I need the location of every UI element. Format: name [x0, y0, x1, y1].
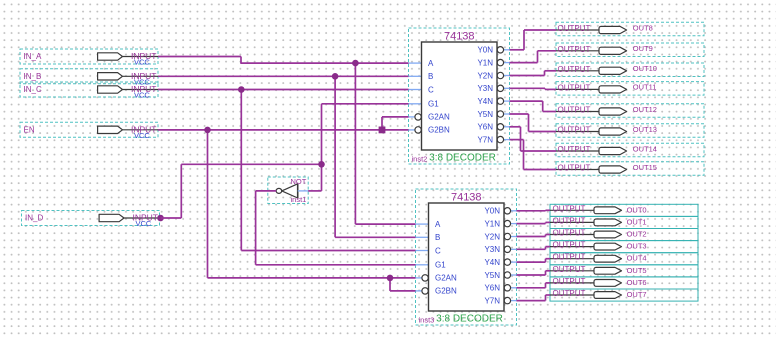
svg-text:OUT6: OUT6 [627, 278, 647, 287]
svg-text:inst1: inst1 [291, 195, 307, 204]
svg-text:G1: G1 [428, 100, 439, 109]
svg-text:OUT0: OUT0 [627, 205, 647, 214]
svg-text:OUT1: OUT1 [627, 217, 647, 226]
svg-text:OUTPUT: OUTPUT [553, 253, 586, 262]
svg-text:G2BN: G2BN [428, 126, 450, 135]
svg-text:G2BN: G2BN [435, 287, 457, 296]
svg-text:G2AN: G2AN [428, 113, 450, 122]
svg-text:OUTPUT: OUTPUT [553, 241, 586, 250]
svg-text:inst3: inst3 [419, 316, 435, 325]
svg-text:A: A [428, 59, 434, 68]
svg-text:Y7N: Y7N [484, 296, 500, 305]
svg-text:inst2: inst2 [412, 155, 428, 164]
svg-text:G1: G1 [435, 261, 446, 270]
svg-text:OUT9: OUT9 [633, 44, 653, 53]
svg-text:OUT4: OUT4 [627, 254, 647, 263]
svg-text:OUT10: OUT10 [633, 64, 657, 73]
svg-text:OUT11: OUT11 [633, 83, 657, 92]
svg-text:Y7N: Y7N [477, 135, 493, 144]
svg-text:Y6N: Y6N [484, 284, 500, 293]
svg-text:OUTPUT: OUTPUT [558, 24, 591, 33]
svg-text:OUT3: OUT3 [627, 242, 647, 251]
svg-text:Y0N: Y0N [477, 46, 493, 55]
svg-text:VCC: VCC [134, 91, 150, 100]
svg-text:Y5N: Y5N [477, 110, 493, 119]
svg-text:Y1N: Y1N [477, 58, 493, 67]
svg-text:OUTPUT: OUTPUT [553, 229, 586, 238]
svg-text:NOT: NOT [291, 177, 307, 186]
svg-text:OUT5: OUT5 [627, 266, 647, 275]
svg-text:OUT15: OUT15 [633, 163, 657, 172]
svg-text:74138: 74138 [444, 31, 475, 43]
svg-text:OUT13: OUT13 [633, 125, 657, 134]
svg-text:OUTPUT: OUTPUT [553, 265, 586, 274]
svg-text:OUTPUT: OUTPUT [558, 145, 591, 154]
svg-text:VCC: VCC [134, 131, 150, 140]
svg-text:Y1N: Y1N [484, 219, 500, 228]
svg-text:3:8 DECODER: 3:8 DECODER [429, 153, 496, 164]
svg-text:Y2N: Y2N [484, 232, 500, 241]
svg-text:B: B [435, 233, 440, 242]
svg-text:G2AN: G2AN [435, 274, 457, 283]
svg-text:IN_D: IN_D [25, 214, 43, 223]
svg-text:IN_C: IN_C [24, 85, 42, 94]
svg-text:OUTPUT: OUTPUT [558, 126, 591, 135]
svg-text:Y4N: Y4N [484, 258, 500, 267]
svg-text:OUTPUT: OUTPUT [553, 204, 586, 213]
svg-text:B: B [428, 72, 433, 81]
svg-text:IN_A: IN_A [24, 52, 42, 61]
svg-text:OUTPUT: OUTPUT [553, 289, 586, 298]
svg-text:3:8 DECODER: 3:8 DECODER [436, 314, 503, 325]
svg-text:C: C [428, 85, 434, 94]
svg-text:OUTPUT: OUTPUT [553, 216, 586, 225]
svg-text:OUT14: OUT14 [633, 144, 657, 153]
svg-text:VCC: VCC [136, 219, 152, 228]
svg-text:OUTPUT: OUTPUT [558, 83, 591, 92]
svg-text:Y0N: Y0N [484, 207, 500, 216]
svg-text:Y2N: Y2N [477, 71, 493, 80]
svg-text:Y6N: Y6N [477, 123, 493, 132]
svg-text:VCC: VCC [134, 58, 150, 67]
svg-text:EN: EN [24, 125, 35, 134]
svg-text:Y5N: Y5N [484, 271, 500, 280]
svg-text:A: A [435, 220, 441, 229]
svg-text:OUTPUT: OUTPUT [558, 164, 591, 173]
svg-text:Y4N: Y4N [477, 97, 493, 106]
svg-text:IN_B: IN_B [24, 72, 42, 81]
svg-text:74138: 74138 [451, 192, 482, 204]
svg-text:OUTPUT: OUTPUT [558, 65, 591, 74]
svg-text:C: C [435, 246, 441, 255]
svg-text:OUTPUT: OUTPUT [558, 106, 591, 115]
svg-text:OUT8: OUT8 [633, 23, 653, 32]
svg-text:OUT12: OUT12 [633, 105, 657, 114]
svg-text:OUT7: OUT7 [627, 290, 647, 299]
svg-text:Y3N: Y3N [477, 84, 493, 93]
svg-text:OUTPUT: OUTPUT [553, 277, 586, 286]
svg-text:OUT2: OUT2 [627, 230, 647, 239]
svg-text:Y3N: Y3N [484, 245, 500, 254]
svg-text:OUTPUT: OUTPUT [558, 45, 591, 54]
